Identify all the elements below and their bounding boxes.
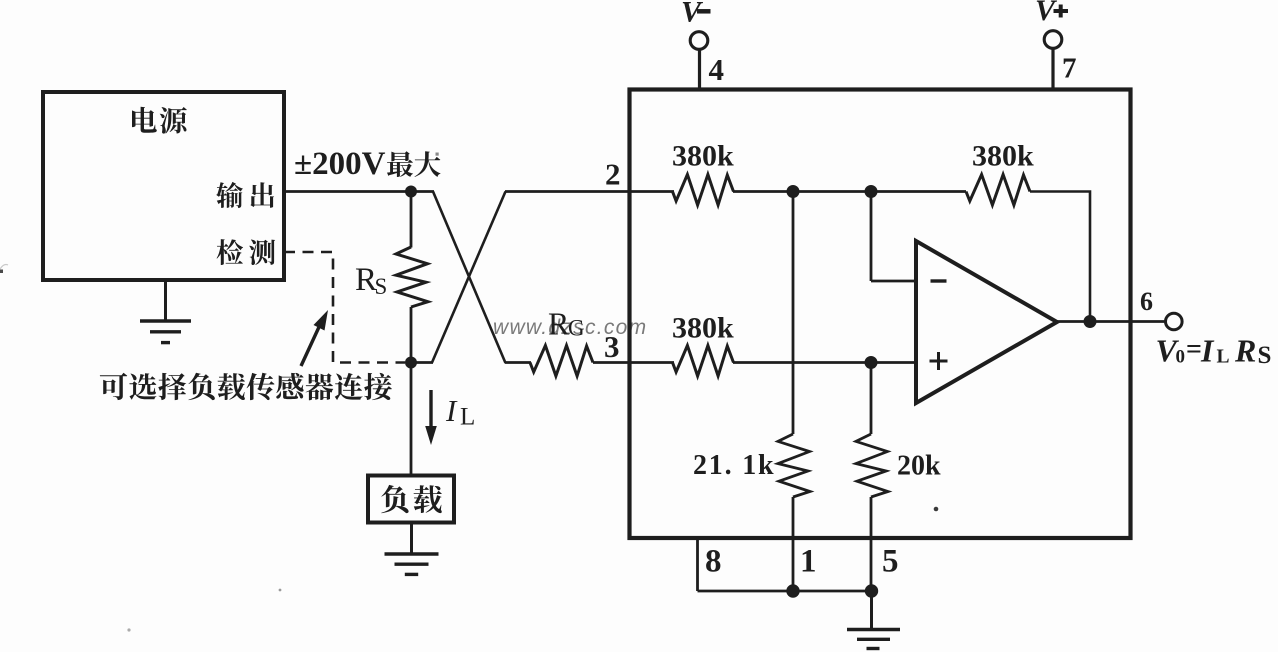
op-amp U1 triangle	[916, 241, 1057, 403]
svg-text:6: 6	[1140, 287, 1153, 316]
op-amp plus sign	[930, 352, 948, 370]
node A2 junction dot (sense / Rs bottom / load)	[405, 357, 417, 369]
svg-text:380k: 380k	[672, 312, 734, 345]
wire: crossover to RG	[505, 361, 531, 364]
wire: output to node A1	[282, 190, 434, 193]
wire: RG to 380k R3 (pin 3)	[593, 361, 674, 364]
svg-text:V: V	[1035, 0, 1058, 27]
resistor R2 380k (feedback)	[966, 175, 1030, 206]
resistor R1 380k (pin2 input)	[673, 175, 734, 206]
wire: op-amp output	[1057, 320, 1166, 323]
svg-text:380k: 380k	[672, 140, 734, 173]
wire: inverting branch to op-amp	[871, 280, 916, 283]
annotation arrow (points to dashed wire)	[301, 310, 328, 366]
wire: R3 to op-amp + input	[733, 361, 916, 364]
label 输出 (output)	[216, 182, 274, 208]
wire: pin 7 stem	[1051, 48, 1054, 90]
node B1 junction dot (top of 21.1k)	[787, 185, 800, 198]
svg-text:21. 1k: 21. 1k	[693, 450, 775, 481]
node A1 junction dot (output / Rs top)	[405, 186, 417, 198]
power supply box	[43, 92, 284, 280]
wire: pin 8 stub	[696, 538, 699, 591]
load box	[368, 476, 454, 523]
pin 6 terminal circle	[1166, 313, 1183, 330]
svg-text:8: 8	[705, 544, 722, 580]
ground G3 below pin 5	[847, 591, 900, 649]
node B2 junction dot (top of inverting branch)	[865, 185, 878, 198]
scan mark left edge	[0, 265, 8, 274]
wire: 20k down to pin 5	[870, 497, 873, 591]
svg-text:1: 1	[800, 544, 817, 580]
svg-text:5: 5	[882, 544, 899, 580]
resistor R5 20k (vertical)	[856, 434, 888, 497]
scan speck	[934, 507, 939, 512]
wire: crossover to 380k R1 (pin 2)	[505, 190, 674, 193]
svg-text:±200V: ±200V	[294, 146, 386, 182]
wire: node B3 down to 20k	[870, 363, 873, 435]
wire: node B1 down to 21.1k	[792, 192, 795, 435]
wire: R1 to node B2	[733, 190, 966, 193]
node D2 junction dot (pin 5)	[865, 584, 878, 597]
label 电源 (power supply)	[132, 107, 187, 134]
IL current arrow	[425, 390, 437, 445]
svg-text:20k: 20k	[897, 451, 941, 482]
label 最大 (maximum)	[387, 151, 441, 177]
label V+	[1035, 0, 1068, 27]
resistor RG (external gain)	[530, 346, 593, 377]
wire: R2 to output node	[1030, 192, 1090, 323]
label 检测 (sense)	[217, 239, 276, 265]
label 可选择负载传感器连接 (optional load sensor connection)	[100, 373, 392, 401]
wire: node A2 stub	[411, 361, 433, 364]
svg-text:380k: 380k	[972, 140, 1034, 173]
wire: Rs bottom to load	[410, 307, 413, 475]
dashed sense connection wire	[284, 252, 405, 363]
wire: pin 4 stem	[698, 49, 701, 90]
wire: diagonal node A2 to pin2 wire (cross under)	[432, 192, 506, 363]
node B3 junction dot (top of 20k / + input)	[865, 356, 878, 369]
svg-text:7: 7	[1062, 53, 1077, 85]
label V-	[681, 0, 711, 29]
op-amp minus sign	[931, 279, 947, 282]
pin 7 terminal circle	[1044, 31, 1062, 49]
wire: 21.1k down to pin 1	[792, 497, 795, 591]
wire: inverting branch down	[870, 192, 873, 282]
label 负载 (load)	[381, 485, 442, 513]
ground G2 under load box	[410, 522, 413, 554]
resistor RS (vertical)	[396, 247, 428, 307]
resistor R3 380k (pin3 input)	[673, 346, 734, 377]
ground G1 under power supply box	[164, 280, 167, 321]
node D1 junction dot (pin 1)	[786, 584, 799, 597]
node C junction dot (output/feedback)	[1084, 315, 1097, 328]
resistor R4 21.1k (vertical)	[778, 434, 810, 497]
svg-text:3: 3	[604, 329, 620, 364]
svg-text:V: V	[681, 0, 704, 29]
svg-text:2: 2	[605, 157, 621, 192]
svg-text:4: 4	[709, 52, 725, 87]
wire: bottom bus pin8-pin1-pin5	[698, 590, 872, 593]
wire: diagonal node A1 to RG (cross over)	[433, 192, 506, 364]
pin 4 terminal circle	[690, 32, 708, 50]
IC box (INA117 outline)	[630, 90, 1131, 539]
wire: Rs top lead	[410, 192, 413, 248]
